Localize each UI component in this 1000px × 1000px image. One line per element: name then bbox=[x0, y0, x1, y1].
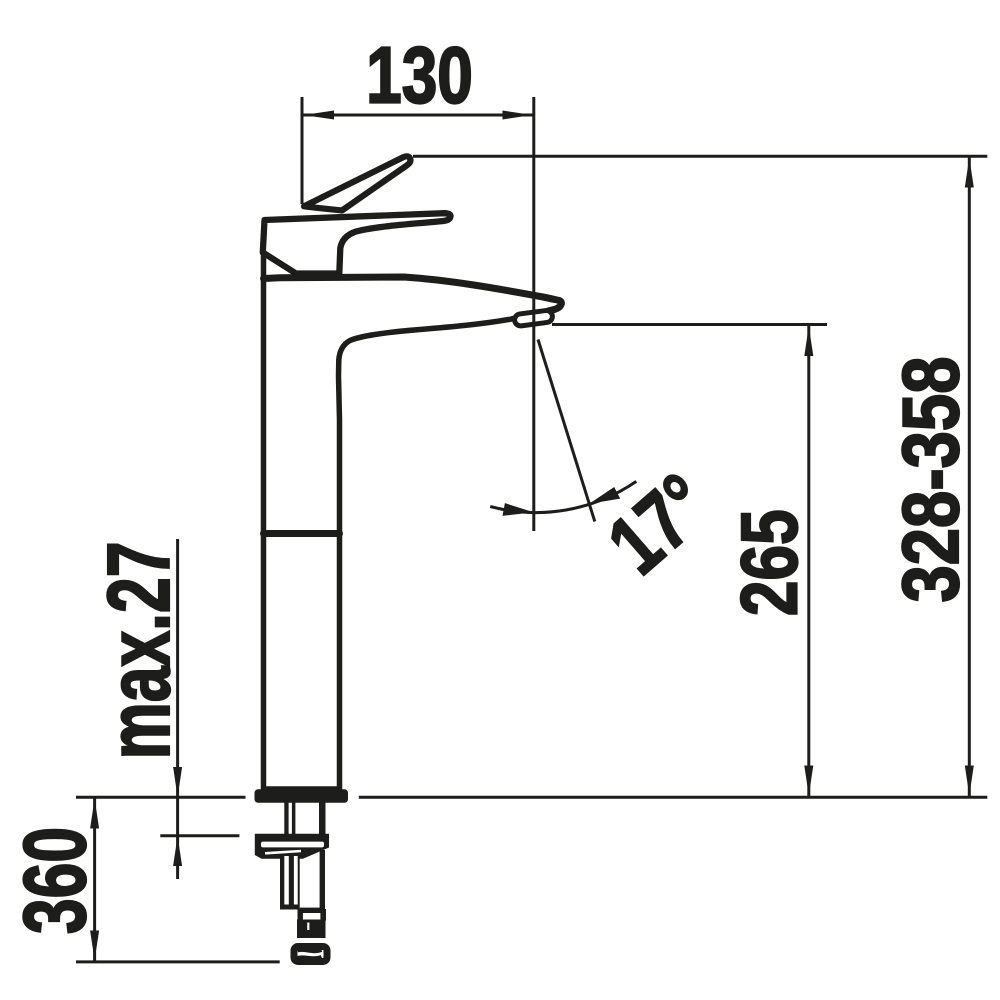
130 dim line bbox=[302, 114, 534, 117]
counter line right segment bbox=[359, 796, 988, 799]
hose neck right edge bbox=[320, 909, 326, 921]
rod slot 1 bbox=[284, 856, 289, 905]
shank left line bbox=[284, 800, 288, 835]
counter line left segment bbox=[76, 796, 246, 799]
svg-text:328-358: 328-358 bbox=[885, 356, 975, 602]
265 dim line bbox=[807, 325, 810, 797]
bracket ext line bbox=[160, 834, 239, 837]
spout body bbox=[264, 252, 562, 789]
mounting bracket bbox=[255, 834, 329, 859]
cartridge dome cap bbox=[263, 213, 451, 273]
max27 arrow upper bbox=[173, 767, 182, 797]
spout top edge (thicker) bbox=[264, 277, 562, 311]
outlet ext line bbox=[552, 323, 827, 326]
130 arrow left bbox=[304, 111, 335, 120]
328-358 arrow top bbox=[965, 158, 974, 188]
coupling block bbox=[297, 920, 326, 939]
360 dim line bbox=[93, 797, 96, 962]
shank right bar bbox=[319, 800, 326, 835]
aerator outlet bbox=[514, 310, 553, 327]
17deg slanted line bbox=[538, 340, 595, 522]
hose neck left edge bbox=[298, 909, 303, 921]
328-358 dim line bbox=[968, 156, 971, 797]
328-358 arrow bottom bbox=[965, 766, 974, 796]
bracket slanted slit bbox=[265, 851, 301, 853]
bottom ext line bbox=[76, 960, 280, 963]
band bbox=[300, 908, 323, 913]
max27 arrow lower bbox=[173, 836, 182, 866]
max27 dim line bbox=[176, 539, 179, 879]
arc arrow left bbox=[503, 503, 534, 516]
bracket slot bbox=[261, 842, 324, 848]
265 arrow top bbox=[804, 326, 813, 356]
coupling tick bbox=[307, 923, 309, 931]
130 arrow right bbox=[503, 111, 533, 120]
top horizontal from lever tip bbox=[413, 155, 987, 158]
360 arrow top bbox=[90, 799, 99, 829]
rod slot 2 bbox=[294, 856, 298, 905]
long vertical through spout tip bbox=[532, 97, 535, 531]
17deg arc bbox=[490, 481, 636, 512]
handle lever blade bbox=[304, 156, 410, 210]
svg-text:360: 360 bbox=[6, 827, 104, 934]
hose nut bbox=[294, 947, 327, 962]
rod right bar bbox=[320, 850, 325, 910]
svg-text:265: 265 bbox=[725, 509, 814, 616]
arc arrow right bbox=[589, 487, 620, 504]
rod left column bbox=[280, 856, 300, 910]
130 left ext line bbox=[301, 97, 304, 204]
column joint line bbox=[264, 530, 340, 537]
360 arrow bottom bbox=[90, 931, 99, 961]
svg-text:max.27: max.27 bbox=[90, 542, 188, 760]
shank middle line bbox=[292, 800, 296, 835]
svg-text:130: 130 bbox=[366, 31, 473, 120]
nut thread wave upper bbox=[298, 950, 322, 951]
265 arrow bottom bbox=[804, 766, 813, 796]
base flange bbox=[255, 789, 349, 803]
nut thread wave lower bbox=[298, 957, 322, 958]
dome/body joint band bbox=[263, 274, 404, 280]
